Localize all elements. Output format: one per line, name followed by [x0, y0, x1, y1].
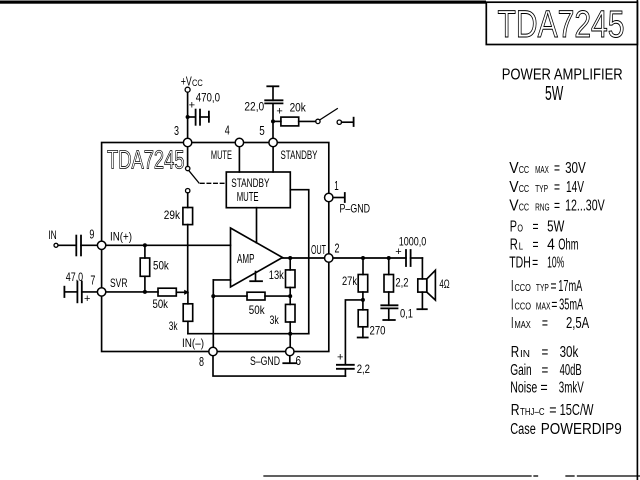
capacitor C1 470,0	[188, 116, 196, 118]
node pin 5	[269, 138, 277, 146]
wire R4 to node A arrow	[176, 291, 184, 293]
svg-text:2,2: 2,2	[395, 276, 408, 290]
svg-text:SVR: SVR	[110, 276, 128, 290]
svg-text:9: 9	[89, 226, 94, 241]
svg-text:1000,0: 1000,0	[399, 237, 427, 249]
capacitor C7 0,1	[381, 304, 397, 306]
node pin 1	[325, 193, 333, 201]
speaker LS1 4ohm	[418, 279, 427, 292]
wire dashed to standby-mute block	[201, 182, 227, 184]
junction dot pin5-C2-R1	[271, 119, 275, 123]
junction dot IN(-)-R8	[288, 332, 292, 336]
svg-text:20k: 20k	[290, 103, 306, 115]
node pin 7	[97, 288, 105, 296]
resistor R10 270	[358, 310, 368, 327]
svg-text:+: +	[276, 106, 282, 118]
resistor R2 29k	[183, 208, 193, 225]
svg-text:29k: 29k	[164, 208, 181, 222]
junction dot IN(+)-R3	[143, 243, 147, 247]
resistor R1 20k	[273, 120, 281, 122]
capacitor C2 22,0	[267, 85, 278, 87]
svg-text:+: +	[84, 293, 90, 305]
svg-text:50k: 50k	[153, 259, 170, 273]
wire OUT rail	[283, 257, 407, 259]
resistor R9 27k	[362, 258, 364, 275]
svg-text:13k: 13k	[269, 268, 285, 282]
resistor R11 2,2 zobel	[388, 258, 390, 275]
svg-text:0,1: 0,1	[400, 307, 413, 321]
wire pin 4 to standby-mute block	[238, 147, 240, 173]
svg-text:OUT: OUT	[311, 243, 326, 257]
junction dot R9-R10-C6	[361, 298, 365, 302]
junction dot OUT-R7	[288, 256, 292, 260]
svg-text:P–GND: P–GND	[340, 202, 371, 216]
wire pin 5 to standby-mute block	[272, 147, 274, 173]
capacitor C6 2,2 electrolytic	[345, 300, 363, 364]
wire standby-mute to amp	[256, 208, 258, 243]
svg-text:2: 2	[335, 241, 340, 256]
svg-text:AMP: AMP	[237, 252, 255, 266]
svg-text:3: 3	[174, 123, 179, 138]
op-amp U1 AMP	[231, 228, 283, 287]
svg-text:6: 6	[296, 353, 302, 368]
svg-text:22,0: 22,0	[244, 102, 264, 114]
ground amp internal	[255, 272, 257, 281]
wire feedback	[213, 295, 247, 297]
svg-text:1: 1	[334, 178, 339, 193]
node pin 2	[325, 254, 333, 262]
resistor R6 50k	[247, 292, 265, 300]
svg-text:Gain=40dB: Gain=40dB	[510, 362, 581, 379]
wire pin 8 to C6	[213, 356, 345, 377]
bottom page border	[264, 475, 531, 477]
svg-text:IN(–): IN(–)	[182, 336, 204, 350]
svg-text:Noise=3mkV: Noise=3mkV	[510, 380, 584, 397]
wire IN(-) to pin 6	[289, 334, 291, 348]
svg-text:8: 8	[199, 354, 204, 369]
wire switch to R2	[187, 193, 189, 208]
wire pin 5 riser	[272, 103, 274, 142]
switch S1 standby	[316, 119, 320, 123]
right page border	[636, 0, 638, 480]
svg-text:TDH=10%: TDH=10%	[509, 254, 564, 271]
IC box TDA7245	[102, 143, 329, 352]
svg-text:27k: 27k	[342, 274, 358, 288]
junction dot Vcc-C1	[186, 115, 190, 119]
svg-text:MUTE: MUTE	[211, 148, 232, 162]
wire IN to C3	[58, 244, 75, 246]
wire IN(-) rail	[188, 333, 309, 335]
svg-text:CasePOWERDIP9: CasePOWERDIP9	[510, 421, 622, 438]
svg-text:STANDBY: STANDBY	[231, 176, 269, 190]
resistor R3 50k	[144, 245, 146, 258]
svg-text:MUTE: MUTE	[237, 190, 259, 204]
terminal IN	[54, 243, 58, 247]
wire SVR pin 7	[106, 291, 158, 293]
svg-text:POWER AMPLIFIER: POWER AMPLIFIER	[502, 66, 623, 83]
top border bar	[0, 1, 486, 4]
junction dot R6-R7-R8	[288, 294, 292, 298]
node pin 6	[286, 347, 294, 355]
svg-text:470,0: 470,0	[196, 93, 220, 105]
node pin 3	[183, 138, 191, 146]
svg-text:TDA7245: TDA7245	[498, 4, 625, 46]
svg-text:CC: CC	[192, 78, 203, 88]
svg-text:4Ω: 4Ω	[439, 277, 449, 291]
wire +Vcc stem to pin 3	[187, 92, 189, 143]
svg-text:3k: 3k	[270, 313, 280, 327]
standby-mute block U2	[226, 172, 290, 208]
svg-text:STANDBY: STANDBY	[281, 148, 318, 162]
svg-text:+: +	[337, 351, 343, 363]
resistor R4 50k	[158, 288, 176, 296]
junction dot SVR-R3-R4	[143, 290, 147, 294]
wire node B to pin 8	[212, 280, 214, 348]
capacitor C4 47,0	[63, 287, 65, 297]
svg-text:2,2: 2,2	[357, 362, 371, 376]
junction dot OUT-R11	[387, 256, 391, 260]
junction dot OUT-R9	[361, 256, 365, 260]
svg-text:5W: 5W	[545, 83, 563, 105]
wire R2 to node A	[187, 225, 189, 293]
resistor R5 3k	[183, 304, 193, 322]
ground S-GND symbol	[289, 356, 291, 363]
svg-text:+V: +V	[181, 73, 192, 88]
node pin 9	[97, 241, 105, 249]
wire amp inverting input	[213, 279, 230, 281]
svg-text:4: 4	[225, 123, 230, 138]
svg-text:47,0: 47,0	[66, 272, 83, 284]
svg-text:S–GND: S–GND	[250, 354, 280, 368]
capacitor C3 input	[75, 236, 77, 256]
svg-text:50k: 50k	[249, 303, 266, 317]
capacitor C5 1000,0	[405, 250, 407, 266]
terminal +Vcc	[185, 87, 190, 92]
svg-text:3k: 3k	[169, 319, 178, 333]
svg-text:5: 5	[259, 123, 265, 138]
switch S2 mute	[187, 147, 189, 167]
svg-text:+: +	[189, 100, 195, 112]
svg-text:270: 270	[370, 324, 386, 338]
node pin 4	[235, 138, 243, 146]
wire standby-mute right output	[290, 190, 308, 334]
svg-text:TDA7245: TDA7245	[107, 145, 185, 175]
svg-text:IN: IN	[48, 228, 56, 242]
wire IN(+) pin 9 to amp	[106, 244, 231, 246]
svg-text:IN(+): IN(+)	[110, 230, 132, 244]
resistor R7 13k	[289, 258, 291, 270]
svg-text:+: +	[395, 246, 401, 258]
title box	[486, 2, 637, 44]
svg-text:50k: 50k	[153, 297, 169, 311]
svg-text:7: 7	[90, 273, 95, 288]
terminal P-GND pin 1	[333, 197, 344, 199]
junction dot node B feedback	[211, 294, 215, 298]
node pin 8	[209, 347, 217, 355]
resistor R8 3k	[286, 304, 296, 322]
